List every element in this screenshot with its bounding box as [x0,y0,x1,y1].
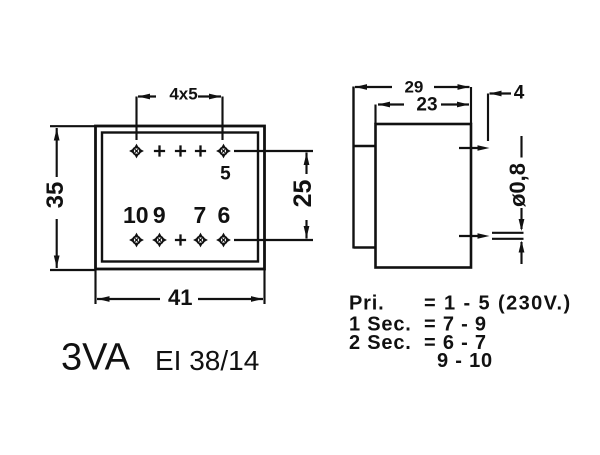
svg-text:10: 10 [123,202,149,228]
svg-text:7: 7 [194,202,207,228]
svg-text:29: 29 [404,77,423,96]
svg-text:23: 23 [416,95,437,116]
svg-text:4x5: 4x5 [169,85,197,104]
svg-text:35: 35 [42,182,69,209]
svg-text:9 - 10: 9 - 10 [437,350,493,372]
svg-text:ø0,8: ø0,8 [505,163,530,207]
svg-text:EI 38/14: EI 38/14 [155,345,259,376]
svg-text:3VA: 3VA [61,337,131,379]
svg-text:Pri.: Pri. [349,293,384,315]
svg-text:2 Sec.: 2 Sec. [349,332,412,354]
svg-text:6: 6 [218,202,231,228]
svg-text:25: 25 [289,180,317,208]
svg-text:= 1 - 5 (230V.): = 1 - 5 (230V.) [424,293,572,315]
svg-text:41: 41 [168,285,192,310]
svg-text:9: 9 [153,202,166,228]
svg-text:5: 5 [220,164,231,185]
svg-text:4: 4 [514,82,525,103]
